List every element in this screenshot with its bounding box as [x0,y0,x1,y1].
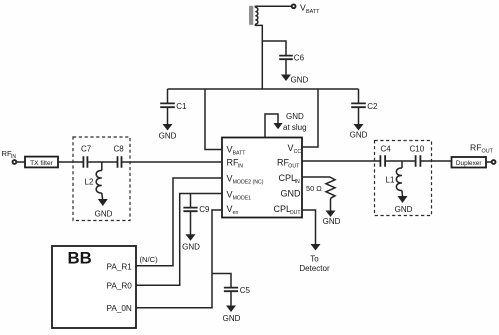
op-amp U1 PA module [222,138,302,218]
wire branch to C6 [262,41,286,55]
svg-text:GND: GND [291,76,309,85]
ground C2 [350,124,368,140]
svg-text:To: To [310,255,319,264]
capacitor C7 [81,144,92,168]
svg-text:GND: GND [223,314,241,323]
wire Vmode2 to PA_R1 [136,178,222,266]
wire C6 to ground [285,59,287,75]
capacitor C1 [160,102,187,111]
svg-text:CC: CC [294,149,302,155]
duplexer block [452,157,487,168]
wire C8 to RFin pin [122,161,223,163]
svg-text:MODE1: MODE1 [233,196,252,202]
ground C9 [182,234,200,251]
svg-text:PA_R0: PA_R0 [107,282,133,291]
wire GND at slug [265,114,278,138]
svg-text:OUT: OUT [288,163,300,169]
inductor L2 [85,170,102,193]
svg-text:C1: C1 [176,102,187,111]
wire duplexer to RFout terminal [486,161,491,163]
svg-text:MODE2 (NC): MODE2 (NC) [233,180,264,186]
wire C5 to ground [230,291,232,306]
svg-text:Detector: Detector [299,264,330,273]
svg-text:GND: GND [159,132,177,141]
wire choke top to VBATT terminal [255,6,291,7]
svg-text:en: en [233,210,239,216]
svg-text:GND: GND [281,189,302,199]
ground R1 [323,211,341,226]
ground L1 [395,196,413,214]
svg-text:IN: IN [238,163,243,169]
svg-text:C10: C10 [410,144,425,153]
terminal RFin [2,149,17,164]
TX filter block [25,157,58,168]
ground C6 [281,75,309,85]
svg-text:PA_0N: PA_0N [107,304,132,313]
wire rail to VBATT pin [205,89,222,150]
svg-text:BATT: BATT [306,9,320,15]
wire rail to C2 [358,89,360,103]
svg-text:C6: C6 [294,54,305,63]
wire L1 to ground [401,191,404,197]
wire CPLout to detector [302,210,316,245]
svg-text:CPL: CPL [279,173,297,183]
wire C5 tap [212,274,231,288]
svg-text:GND: GND [395,205,413,214]
svg-text:IN: IN [295,179,300,185]
capacitor C10 [410,144,425,167]
capacitor C2 [351,102,378,111]
capacitor C9 [183,205,210,214]
wire C4 to C10 [385,160,416,162]
svg-text:PA_R1: PA_R1 [107,262,133,271]
svg-text:OUT: OUT [290,210,302,216]
wire Vmode1 to PA_R0 [136,194,222,286]
svg-text:50 Ω: 50 Ω [306,184,322,193]
input matching dashed box [73,137,130,221]
wire rail to VCC pin [302,89,318,147]
svg-text:BATT: BATT [233,150,247,156]
wire C9 to ground [190,211,192,235]
wire C1 to ground [167,107,169,124]
capacitor C8 [114,144,125,168]
svg-text:C4: C4 [381,144,392,153]
svg-text:Duplexer: Duplexer [456,160,482,167]
ground at slug [273,112,306,132]
svg-text:IN: IN [11,154,16,160]
svg-text:C7: C7 [81,144,92,153]
inductor L1 [386,168,403,191]
wire resistor to ground [330,198,332,211]
capacitor C5 [224,286,251,295]
wire top rail [168,88,359,90]
svg-text:OUT: OUT [482,149,494,155]
svg-text:RF: RF [470,143,481,153]
wire C10 to duplexer [420,160,451,162]
wire RFout pin to C4 [302,160,380,162]
svg-text:GND: GND [323,217,341,226]
wire CPLin to resistor [302,176,330,178]
svg-text:TX filter: TX filter [30,160,54,167]
svg-text:BB: BB [68,249,92,268]
wire L1 tap [401,161,403,168]
arrow to detector [299,244,330,273]
ground C5 [223,306,241,323]
wire Ven to PA_0N [136,210,222,308]
terminal RFout [470,143,496,164]
svg-text:at slug: at slug [283,123,307,132]
svg-text:L2: L2 [85,178,94,187]
svg-text:L1: L1 [386,176,395,185]
wire L2 tap [101,162,103,171]
svg-text:CPL: CPL [274,204,292,214]
svg-text:C8: C8 [114,144,125,153]
ground L2 [95,199,113,219]
terminal VBATT [292,2,320,15]
wire choke bottom down to top rail [255,24,262,89]
wire rail to C1 [167,89,169,103]
svg-text:(N/C): (N/C) [140,255,159,264]
svg-text:C2: C2 [367,102,378,111]
wire C9 tap [190,194,192,208]
resistor R1 50ohm [306,177,335,198]
capacitor C4 [380,144,391,167]
wire RFin terminal to TX filter [17,161,26,163]
svg-text:C9: C9 [199,205,210,214]
wire C7 to C8 [87,161,117,163]
wire L2 to ground [101,193,104,200]
output matching dashed box [375,141,432,216]
wire C2 to ground [358,107,360,124]
wire TX filter to C7 [58,161,83,163]
baseband block BB [52,246,136,328]
inductor L3 VBATT choke [249,6,258,25]
svg-text:GND: GND [350,131,368,140]
ground C1 [159,124,177,141]
svg-text:GND: GND [286,112,304,121]
capacitor C6 [279,54,304,63]
svg-text:C5: C5 [240,286,251,295]
svg-text:GND: GND [95,210,113,219]
svg-text:GND: GND [182,243,200,252]
